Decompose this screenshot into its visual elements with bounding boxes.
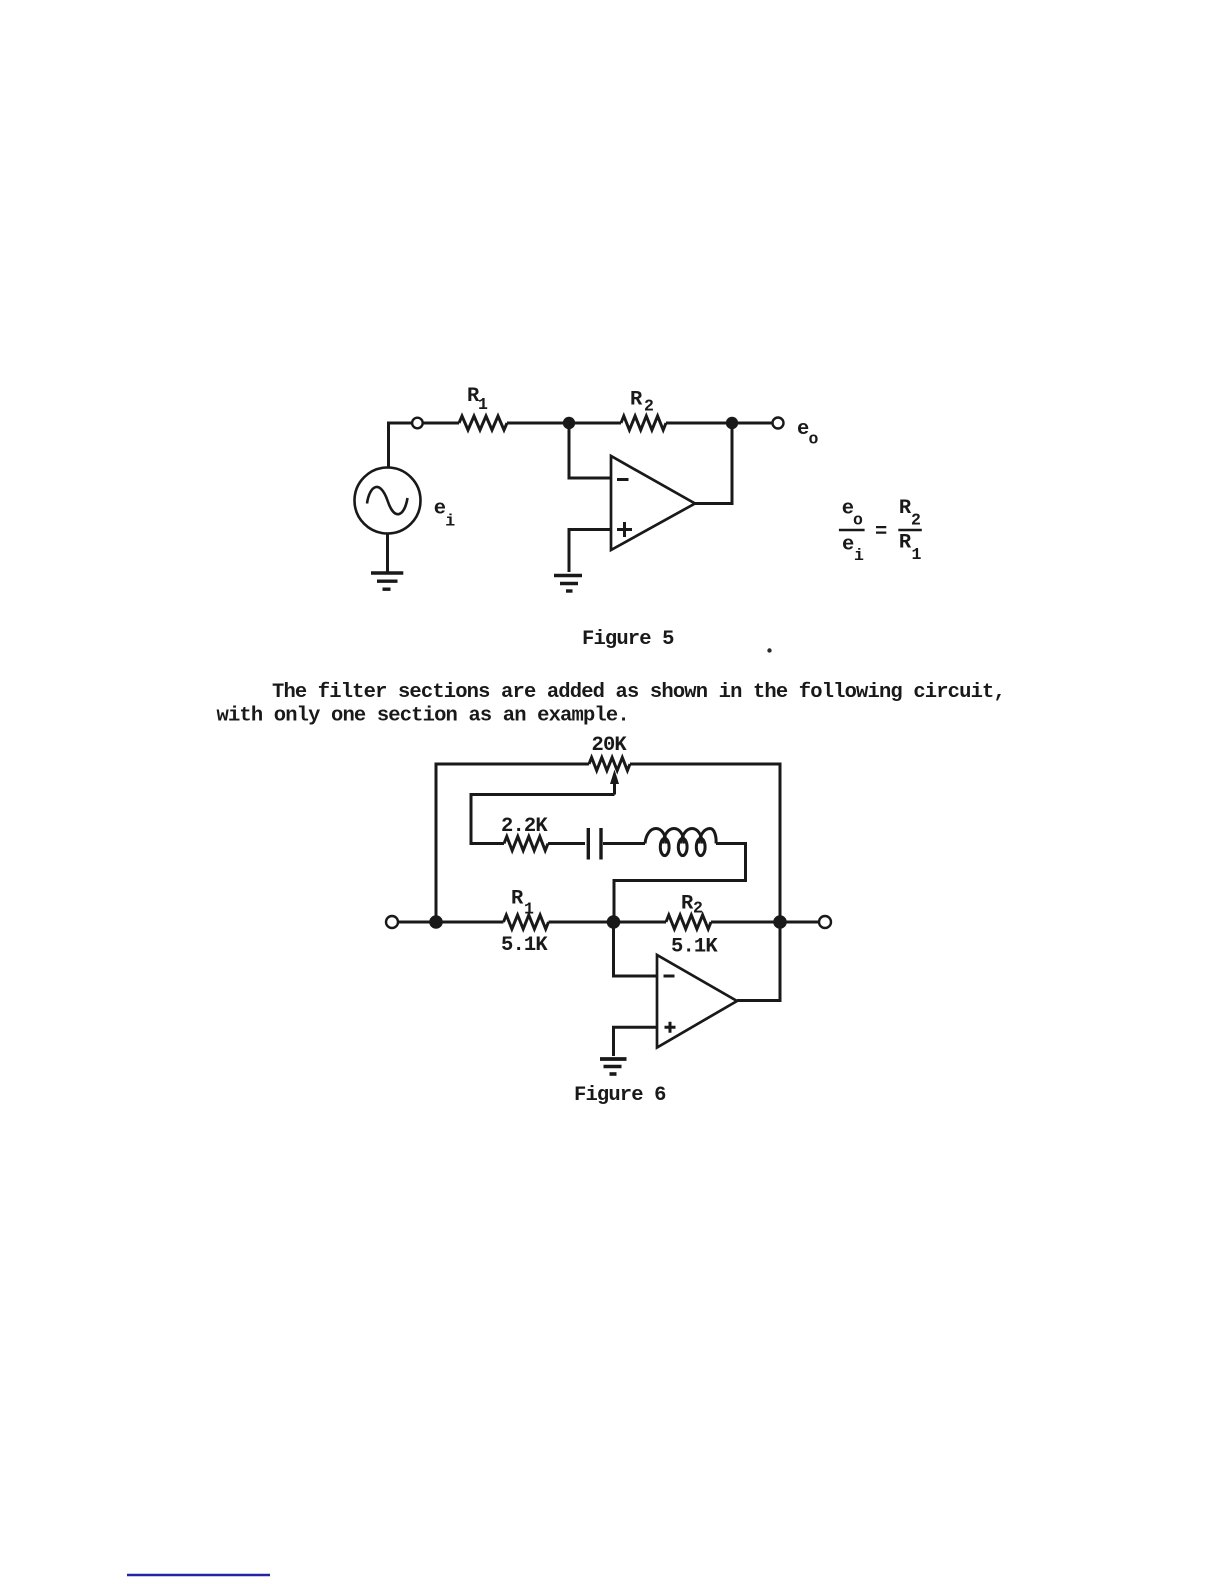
svg-text:2.2K: 2.2K bbox=[501, 815, 548, 838]
label eo (fig5 output) bbox=[797, 418, 819, 449]
svg-text:e: e bbox=[842, 534, 854, 557]
wire: summing node to R2 (fig5) bbox=[569, 422, 621, 425]
op-amp U2 (fig6) bbox=[657, 955, 737, 1048]
wire: input terminal down to source (fig5) bbox=[387, 423, 390, 468]
wire: R1 to center node (fig6) bbox=[549, 921, 615, 924]
wire: R1 to summing node (fig5) bbox=[507, 422, 569, 425]
svg-text:1: 1 bbox=[912, 545, 922, 564]
speck (scan artifact near Figure 5 caption) bbox=[767, 648, 771, 652]
svg-text:Figure 5: Figure 5 bbox=[582, 628, 674, 651]
ground: op-amp noninverting input (fig5) bbox=[554, 576, 582, 592]
wire: fig5 input terminal to R1 (top wire left segment) bbox=[389, 423, 460, 425]
svg-text:1: 1 bbox=[478, 395, 488, 414]
resistor 2.2K (fig6) bbox=[504, 837, 548, 851]
svg-text:e: e bbox=[842, 498, 854, 521]
wire: 20K pot to top right corner (fig6) bbox=[630, 764, 780, 922]
node: fig6 left junction (dot) bbox=[429, 915, 443, 929]
wire: op-amp output to output node (fig5) bbox=[695, 423, 732, 504]
op-amp U1 (fig5) bbox=[611, 456, 695, 550]
caption Figure 6 bbox=[574, 1084, 666, 1107]
svg-text:1: 1 bbox=[524, 900, 534, 919]
svg-text:i: i bbox=[445, 511, 455, 530]
node: fig6 center junction (dot) bbox=[607, 915, 621, 929]
wire: op-amp noninverting input to ground (fig5) bbox=[569, 530, 611, 573]
wire: wiper to 2.2K branch (fig6) bbox=[471, 795, 615, 844]
wire: R2 to output node (fig5) bbox=[666, 422, 732, 425]
label minus input (fig6 op-amp) bbox=[664, 975, 675, 978]
label 2.2K (fig6) bbox=[501, 815, 548, 838]
wire: op-amp output to right node (fig6) bbox=[737, 922, 780, 1001]
label R1 (fig5) bbox=[467, 385, 488, 414]
wire: source to ground (fig5) bbox=[386, 534, 389, 572]
svg-text:e: e bbox=[434, 497, 446, 520]
svg-text:5.1K: 5.1K bbox=[671, 936, 718, 959]
svg-text:2: 2 bbox=[644, 397, 653, 416]
node: fig5 output junction (dot) bbox=[726, 417, 738, 429]
equation eo/ei = R2/R1 (fig5) bbox=[839, 497, 922, 565]
wire: op-amp noninverting input to ground (fig6) bbox=[614, 1027, 658, 1056]
wire: 2.2K to capacitor (fig6) bbox=[548, 842, 585, 845]
caption Figure 5 bbox=[582, 628, 674, 651]
label plus input (fig5 op-amp) bbox=[617, 522, 632, 537]
label R2 (fig5) bbox=[630, 389, 653, 416]
svg-text:5.1K: 5.1K bbox=[501, 934, 548, 957]
resistor R2 (fig5) bbox=[621, 416, 666, 430]
svg-text:=: = bbox=[875, 521, 887, 544]
source ei (sine generator, fig5) bbox=[355, 468, 421, 534]
svg-text:with only one section as an ex: with only one section as an example. bbox=[217, 704, 629, 727]
wire: R2 to right node (fig6) bbox=[711, 921, 781, 924]
inductor L1 (fig6) bbox=[645, 829, 716, 856]
paragraph text bbox=[217, 681, 1005, 727]
wire: output node to output terminal (fig5) bbox=[732, 422, 772, 425]
label plus input (fig6 op-amp) bbox=[665, 1022, 676, 1033]
label 5.1K (fig6 R1 value) bbox=[501, 934, 548, 957]
pot wiper arrow (fig6) bbox=[610, 770, 619, 795]
wire: summing node to op-amp inverting input (fig5) bbox=[569, 423, 611, 478]
node: fig6 input terminal (open circle) bbox=[386, 916, 398, 928]
wire: left node to R1 (fig6) bbox=[436, 921, 504, 924]
label 20K (fig6 pot) bbox=[592, 734, 628, 757]
svg-text:o: o bbox=[809, 430, 819, 449]
label 5.1K (fig6 R2 value) bbox=[671, 936, 718, 959]
blue underline mark (bottom left) bbox=[127, 1574, 270, 1576]
node: fig5 summing junction (dot) bbox=[563, 417, 575, 429]
potentiometer 20K (fig6) bbox=[589, 758, 630, 771]
label R1 (fig6) bbox=[511, 888, 534, 919]
svg-text:20K: 20K bbox=[592, 734, 628, 757]
wire: capacitor to inductor (fig6) bbox=[603, 842, 645, 845]
wire: right node to output terminal (fig6) bbox=[780, 921, 819, 924]
svg-text:i: i bbox=[854, 546, 864, 565]
svg-text:R: R bbox=[630, 389, 643, 412]
svg-text:R: R bbox=[899, 532, 912, 555]
svg-text:The filter sections are added: The filter sections are added as shown i… bbox=[272, 681, 1005, 704]
wire: input terminal to left node (fig6) bbox=[398, 921, 436, 924]
resistor R1 (fig6) bbox=[504, 915, 549, 929]
resistor R1 (fig5) bbox=[459, 416, 507, 430]
svg-text:2: 2 bbox=[693, 899, 702, 918]
ground: below source (fig5) bbox=[371, 573, 403, 589]
capacitor C1 (fig6) bbox=[588, 828, 601, 860]
svg-text:R: R bbox=[511, 888, 524, 911]
resistor R2 (fig6) bbox=[666, 915, 711, 929]
wire: center node to R2 (fig6) bbox=[614, 921, 666, 924]
wire: fig6 top loop left segment (to 20K pot) bbox=[436, 764, 589, 922]
node: fig6 right junction (dot) bbox=[773, 915, 787, 929]
svg-text:Figure 6: Figure 6 bbox=[574, 1084, 666, 1107]
label R2 (fig6) bbox=[681, 893, 702, 918]
svg-text:R: R bbox=[899, 497, 912, 520]
node: fig5 output terminal eo (open circle) bbox=[773, 418, 784, 429]
svg-text:o: o bbox=[853, 511, 863, 530]
label ei (fig5 source) bbox=[434, 497, 455, 530]
svg-text:2: 2 bbox=[911, 511, 920, 530]
label minus input (fig5 op-amp) bbox=[617, 478, 629, 481]
svg-text:e: e bbox=[797, 418, 809, 441]
wire: inductor to inverting node (fig6, down-around path) bbox=[614, 844, 746, 923]
wire: center node to op-amp inverting input (fig6) bbox=[614, 922, 658, 976]
node: fig6 output terminal (open circle) bbox=[819, 916, 831, 928]
node: fig5 input terminal (open circle) bbox=[412, 418, 423, 429]
ground: fig6 op-amp noninverting input bbox=[600, 1059, 627, 1074]
